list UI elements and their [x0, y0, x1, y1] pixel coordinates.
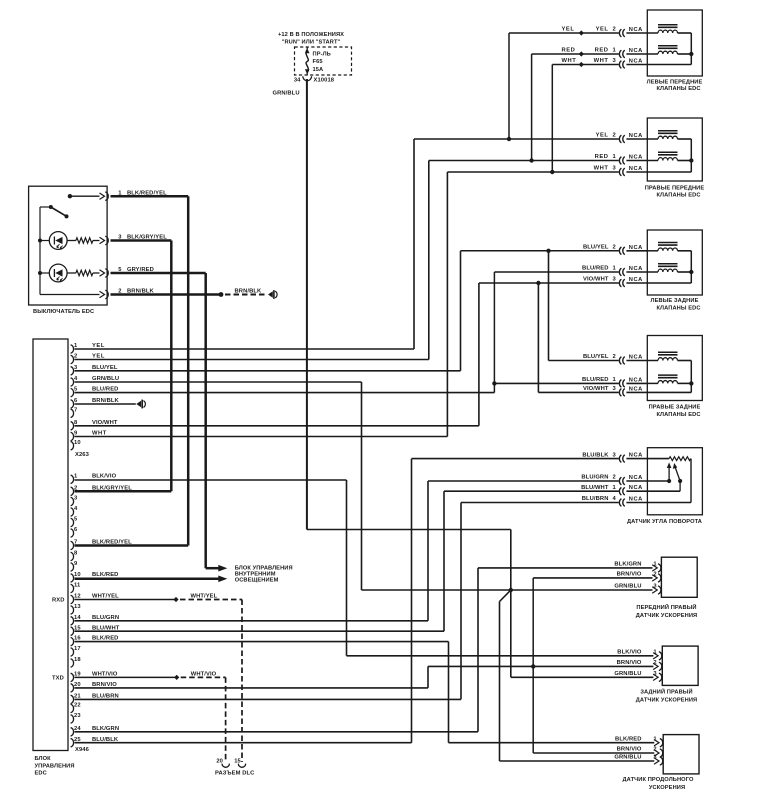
svg-text:17: 17	[74, 646, 81, 652]
svg-text:BLU/GRN: BLU/GRN	[581, 475, 608, 481]
svg-text:BLK/RED: BLK/RED	[92, 636, 118, 642]
svg-text:BLK/RED: BLK/RED	[615, 736, 641, 742]
svg-text:WHT: WHT	[594, 58, 609, 64]
svg-text:BLU/RED: BLU/RED	[582, 266, 608, 272]
svg-text:2: 2	[613, 475, 616, 481]
svg-text:BLU/BLK: BLU/BLK	[582, 452, 609, 458]
svg-text:NCA: NCA	[629, 27, 643, 33]
svg-text:20: 20	[74, 682, 81, 688]
svg-text:ЛЕВЫЕ ПЕРЕДНИЕ: ЛЕВЫЕ ПЕРЕДНИЕ	[647, 80, 703, 86]
svg-text:18: 18	[74, 657, 81, 663]
svg-text:BLU/RED: BLU/RED	[582, 377, 608, 383]
svg-text:GRY/RED: GRY/RED	[127, 267, 154, 273]
svg-text:УСКОРЕНИЯ: УСКОРЕНИЯ	[649, 785, 685, 791]
svg-text:ЗАДНИЙ ПРАВЫЙ: ЗАДНИЙ ПРАВЫЙ	[640, 687, 692, 695]
svg-text:NCA: NCA	[629, 48, 643, 54]
svg-text:RED: RED	[595, 48, 609, 54]
svg-text:RXD: RXD	[52, 597, 65, 603]
svg-text:VIO/WHT: VIO/WHT	[92, 420, 118, 426]
svg-text:F65: F65	[313, 59, 323, 65]
svg-text:BRN/VIO: BRN/VIO	[617, 747, 642, 753]
svg-text:BLK/GRN: BLK/GRN	[614, 562, 641, 568]
svg-text:ОСВЕЩЕНИЕМ: ОСВЕЩЕНИЕМ	[235, 578, 279, 584]
svg-text:X10018: X10018	[314, 77, 335, 83]
svg-text:34: 34	[294, 77, 301, 83]
svg-text:BRN/BLK: BRN/BLK	[235, 289, 262, 295]
svg-text:25: 25	[74, 737, 81, 743]
svg-text:КЛАПАНЫ EDC: КЛАПАНЫ EDC	[656, 86, 700, 92]
svg-text:NCA: NCA	[629, 377, 643, 383]
svg-text:10: 10	[74, 440, 81, 446]
svg-text:GRN/BLU: GRN/BLU	[273, 90, 300, 96]
svg-text:GRN/BLU: GRN/BLU	[614, 755, 641, 761]
svg-text:ЛЕВЫЕ ЗАДНИЕ: ЛЕВЫЕ ЗАДНИЕ	[651, 298, 699, 304]
svg-text:RED: RED	[595, 154, 609, 160]
svg-text:ДАТЧИК УГЛА ПОВОРОТА: ДАТЧИК УГЛА ПОВОРОТА	[627, 519, 702, 525]
svg-text:2: 2	[613, 27, 616, 33]
svg-text:24: 24	[74, 726, 81, 732]
svg-text:2: 2	[118, 289, 121, 295]
svg-text:10: 10	[74, 572, 81, 578]
svg-text:14: 14	[74, 615, 81, 621]
svg-text:NCA: NCA	[629, 386, 643, 392]
svg-text:2: 2	[613, 133, 616, 139]
svg-text:УПРАВЛЕНИЯ: УПРАВЛЕНИЯ	[35, 763, 75, 769]
svg-text:NCA: NCA	[629, 277, 643, 283]
svg-text:BLU/BLK: BLU/BLK	[92, 737, 119, 743]
svg-text:ВЫКЛЮЧАТЕЛЬ EDC: ВЫКЛЮЧАТЕЛЬ EDC	[33, 309, 94, 315]
svg-text:GRN/BLU: GRN/BLU	[614, 671, 641, 677]
svg-text:23: 23	[74, 713, 81, 719]
svg-text:22: 22	[74, 703, 81, 709]
svg-text:BLU/GRN: BLU/GRN	[92, 615, 119, 621]
svg-text:BLU/YEL: BLU/YEL	[583, 245, 609, 251]
svg-text:2: 2	[613, 354, 616, 360]
svg-text:12: 12	[74, 594, 81, 600]
svg-text:BLU/BRN: BLU/BRN	[582, 496, 609, 502]
svg-text:X946: X946	[75, 747, 90, 753]
svg-text:NCA: NCA	[629, 155, 643, 161]
svg-text:YEL: YEL	[92, 354, 105, 360]
svg-text:КЛАПАНЫ EDC: КЛАПАНЫ EDC	[656, 412, 700, 418]
svg-text:YEL: YEL	[596, 27, 609, 33]
svg-text:BLK/VIO: BLK/VIO	[92, 473, 117, 479]
svg-text:WHT/VIO: WHT/VIO	[92, 672, 118, 678]
svg-text:КЛАПАНЫ EDC: КЛАПАНЫ EDC	[656, 192, 700, 198]
svg-text:ДАТЧИК УСКОРЕНИЯ: ДАТЧИК УСКОРЕНИЯ	[636, 613, 698, 619]
svg-text:BRN/VIO: BRN/VIO	[617, 572, 642, 578]
svg-text:КЛАПАНЫ EDC: КЛАПАНЫ EDC	[656, 305, 700, 311]
svg-text:7: 7	[74, 407, 77, 413]
svg-text:ПРАВЫЕ ЗАДНИЕ: ПРАВЫЕ ЗАДНИЕ	[649, 405, 701, 411]
svg-text:2: 2	[74, 485, 77, 491]
svg-text:BLK/RED/YEL: BLK/RED/YEL	[127, 190, 167, 196]
svg-text:15A: 15A	[313, 67, 324, 73]
svg-text:16: 16	[74, 636, 81, 642]
svg-text:NCA: NCA	[629, 497, 643, 503]
svg-text:15: 15	[74, 625, 81, 631]
svg-text:+12 В В ПОЛОЖЕНИЯХ: +12 В В ПОЛОЖЕНИЯХ	[278, 32, 344, 38]
svg-text:BLK/VIO: BLK/VIO	[617, 650, 642, 656]
svg-text:NCA: NCA	[629, 266, 643, 272]
svg-text:BLU/RED: BLU/RED	[92, 387, 118, 393]
svg-text:WHT/YEL: WHT/YEL	[191, 593, 218, 599]
svg-text:NCA: NCA	[629, 355, 643, 361]
svg-text:GRN/BLU: GRN/BLU	[92, 376, 119, 382]
svg-text:TXD: TXD	[52, 675, 64, 681]
svg-text:РАЗЪЕМ DLC: РАЗЪЕМ DLC	[215, 771, 255, 777]
svg-text:YEL: YEL	[596, 133, 609, 139]
svg-text:YEL: YEL	[92, 343, 105, 349]
svg-text:WHT: WHT	[594, 166, 609, 172]
svg-text:BLK/RED: BLK/RED	[92, 572, 118, 578]
svg-text:BLK/RED/YEL: BLK/RED/YEL	[92, 540, 132, 546]
svg-text:ПЕРЕДНИЙ ПРАВЫЙ: ПЕРЕДНИЙ ПРАВЫЙ	[636, 603, 696, 611]
svg-text:7: 7	[74, 540, 77, 546]
svg-text:EDC: EDC	[35, 771, 47, 777]
svg-text:BLK/GRY/YEL: BLK/GRY/YEL	[92, 485, 132, 491]
svg-text:WHT: WHT	[92, 431, 107, 437]
svg-text:BRN/BLK: BRN/BLK	[127, 289, 154, 295]
svg-text:BLU/BRN: BLU/BRN	[92, 694, 119, 700]
svg-text:BLK/GRY/YEL: BLK/GRY/YEL	[127, 235, 167, 241]
svg-text:BRN/VIO: BRN/VIO	[92, 682, 117, 688]
svg-text:ПРАВЫЕ ПЕРЕДНИЕ: ПРАВЫЕ ПЕРЕДНИЕ	[645, 185, 705, 191]
svg-text:NCA: NCA	[629, 475, 643, 481]
svg-text:БЛОК: БЛОК	[35, 756, 52, 762]
svg-text:19: 19	[74, 672, 81, 678]
svg-text:NCA: NCA	[629, 133, 643, 139]
svg-text:NCA: NCA	[629, 453, 643, 459]
svg-text:BLU/YEL: BLU/YEL	[583, 354, 609, 360]
svg-text:VIO/WHT: VIO/WHT	[583, 386, 609, 392]
svg-text:2: 2	[613, 245, 616, 251]
svg-text:BLK/GRN: BLK/GRN	[92, 726, 119, 732]
svg-text:NCA: NCA	[629, 485, 643, 491]
svg-text:WHT: WHT	[562, 58, 577, 64]
svg-text:X263: X263	[75, 452, 90, 458]
svg-text:ДАТЧИК УСКОРЕНИЯ: ДАТЧИК УСКОРЕНИЯ	[636, 698, 698, 704]
svg-text:GRN/BLU: GRN/BLU	[614, 584, 641, 590]
svg-text:"RUN" ИЛИ "START": "RUN" ИЛИ "START"	[282, 39, 341, 45]
svg-text:BLU/WHT: BLU/WHT	[581, 485, 609, 491]
svg-text:WHT/VIO: WHT/VIO	[191, 671, 217, 677]
svg-text:BRN/VIO: BRN/VIO	[617, 660, 642, 666]
svg-text:NCA: NCA	[629, 59, 643, 65]
svg-text:21: 21	[74, 694, 81, 700]
svg-text:2: 2	[74, 354, 77, 360]
svg-text:13: 13	[74, 604, 81, 610]
svg-text:YEL: YEL	[562, 26, 575, 32]
svg-text:NCA: NCA	[629, 245, 643, 251]
svg-text:11: 11	[74, 583, 81, 589]
svg-text:RED: RED	[562, 47, 576, 53]
svg-text:NCA: NCA	[629, 166, 643, 172]
svg-text:BLU/WHT: BLU/WHT	[92, 625, 120, 631]
svg-text:VIO/WHT: VIO/WHT	[583, 277, 609, 283]
svg-text:WHT/YEL: WHT/YEL	[92, 594, 119, 600]
svg-text:ДАТЧИК ПРОДОЛЬНОГО: ДАТЧИК ПРОДОЛЬНОГО	[623, 777, 694, 783]
svg-text:BLU/YEL: BLU/YEL	[92, 365, 118, 371]
svg-text:ПР-ЛЬ: ПР-ЛЬ	[313, 52, 331, 58]
